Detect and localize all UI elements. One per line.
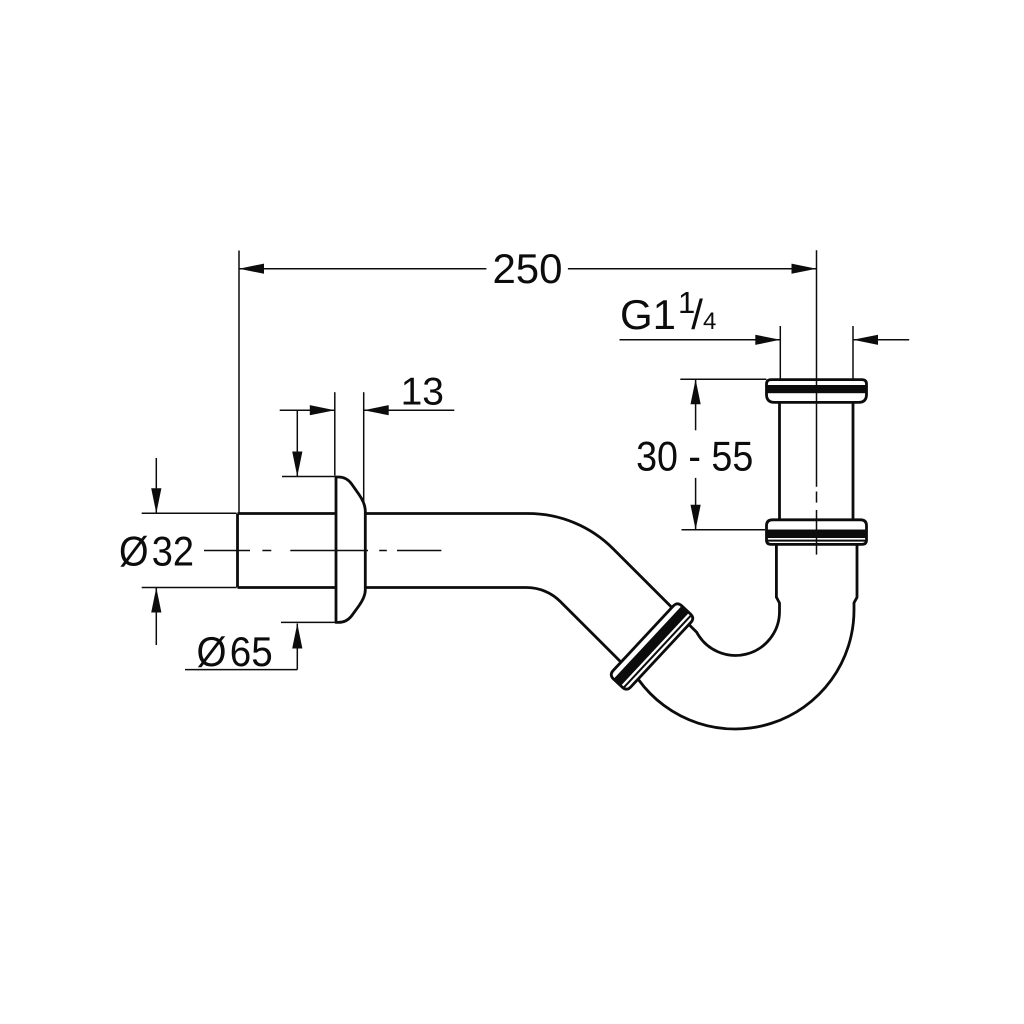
svg-text:Ø 65: Ø 65: [197, 628, 273, 675]
node vertical centerline / extension line of riser: [816, 250, 818, 486]
node union nut on diagonal pipe: [611, 604, 693, 689]
node wall flange escutcheon: [336, 477, 365, 622]
svg-text:250: 250: [492, 245, 562, 292]
node dimension diameter32 arrows: [155, 458, 157, 513]
node dimension diameter32 extension lines: [142, 512, 237, 514]
svg-text:G11/4: G11/4: [620, 285, 716, 338]
node dimension 30-55 extension lines: [680, 378, 766, 380]
node dimension 13 line and arrows: [280, 409, 335, 411]
node dimension diameter65 bottom arrow and leader: [296, 624, 298, 670]
node dimension 30-55 line and arrows: [695, 379, 697, 430]
node dimension diameter65 extension lines: [282, 476, 336, 478]
node dimension 13 extension lines: [334, 392, 336, 475]
wire pipe outline top (inlet tube, diagonal, trap inner wall): [238, 514, 780, 656]
wire vertical tube wall left (between nuts): [778, 402, 781, 519]
svg-text:30 - 55: 30 - 55: [636, 433, 753, 480]
node dimension G1 1/4 line and arrows: [620, 339, 781, 341]
node union nut bottom (on vertical tube): [767, 520, 867, 545]
svg-text:13: 13: [401, 371, 444, 414]
svg-text:Ø 32: Ø 32: [119, 527, 194, 574]
node dimension 250 extension line left: [238, 251, 240, 514]
wire vertical tube wall right (between nuts): [852, 402, 855, 519]
node dimension diameter65 top arrow: [296, 410, 298, 476]
wire pipe left end cap: [236, 514, 239, 588]
wire pipe outline bottom (inlet tube, diagonal, trap outer wall): [238, 544, 858, 729]
node union nut top (on vertical tube): [767, 380, 867, 403]
node dimension G1 1/4 extension lines: [779, 326, 781, 380]
node dimension 250 line and arrows: [239, 268, 486, 270]
node horizontal centerline of inlet pipe: [204, 550, 250, 552]
